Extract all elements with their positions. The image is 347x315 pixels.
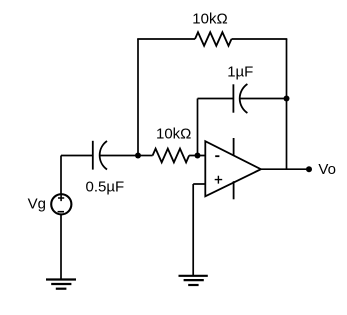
capacitor C2 1µF curved plate — [240, 84, 248, 113]
wire source top — [60, 156, 62, 195]
wire node A to resistor — [138, 155, 153, 157]
svg-text:Vo: Vo — [318, 161, 336, 178]
op-amp power pin bottom — [233, 181, 235, 199]
resistor R1 10k (input) — [153, 149, 190, 163]
capacitor C1 0.5µF curved plate — [100, 141, 107, 170]
capacitor C2 1µF plate — [232, 84, 234, 112]
wire feedback-left vertical — [137, 39, 139, 156]
ground G2 under op-amp input — [179, 276, 208, 285]
source Vg circle — [51, 194, 71, 214]
wire right feedback vertical — [286, 39, 288, 169]
wire resistor to node B — [189, 155, 205, 157]
node junction dot at right vertical / cap branch — [284, 96, 290, 102]
wire cap-branch horizontal right — [240, 98, 286, 100]
source plus sign — [58, 195, 64, 201]
svg-text:1µF: 1µF — [227, 64, 253, 81]
wire output — [261, 168, 309, 170]
op-amp plus marker — [215, 176, 223, 184]
svg-text:10kΩ: 10kΩ — [192, 11, 227, 28]
svg-text:10kΩ: 10kΩ — [156, 125, 191, 142]
op-amp power pin top — [233, 138, 235, 156]
wire input horizontal from source corner to cap — [61, 155, 92, 157]
node B junction dot — [195, 153, 201, 159]
wire source bottom — [60, 214, 62, 279]
wire top-left horizontal — [137, 38, 195, 40]
node A junction dot — [135, 153, 141, 159]
resistor R2 10k (top feedback) — [195, 32, 232, 46]
wire cap to node A — [100, 155, 138, 157]
svg-text:Vg: Vg — [28, 195, 46, 212]
node Vo terminal dot — [306, 166, 312, 172]
svg-text:0.5µF: 0.5µF — [86, 178, 125, 195]
wire non-inverting input vertical to ground — [192, 184, 194, 276]
op-amp U1 triangle — [205, 141, 261, 196]
wire non-inverting input horizontal — [193, 183, 205, 185]
wire cap-branch vertical — [197, 99, 199, 156]
capacitor C1 0.5µF plate — [92, 141, 94, 170]
op-amp minus marker — [215, 155, 219, 157]
wire top-right horizontal — [232, 38, 288, 40]
wire cap-branch horizontal left — [198, 98, 233, 100]
ground G1 under source — [46, 280, 76, 289]
source minus sign — [58, 211, 64, 213]
